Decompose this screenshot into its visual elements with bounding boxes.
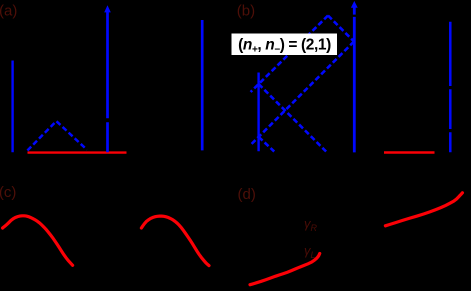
barrier line left (panel a)	[11, 61, 13, 153]
barrier line right (panel a)	[201, 20, 204, 150]
svg-text:(a): (a)	[0, 3, 17, 20]
delta arrow head (panel a)	[104, 5, 111, 12]
label box (n+,n-)=(2,1)	[232, 34, 338, 56]
red rising curve right (panel d)	[385, 193, 462, 226]
delta arrow shaft (panel a)	[106, 11, 109, 152]
red hump curve 2 (panel c)	[141, 216, 209, 266]
wavepacket baseline (panel a, red)	[28, 151, 127, 153]
svg-text:(b): (b)	[237, 2, 255, 19]
trajectory segment left barrier down-right short (panel b)	[259, 137, 275, 152]
trajectory segment apex to left barrier (panel b)	[251, 16, 328, 93]
dashed barrier line right (panel b)	[449, 22, 452, 152]
trajectory segment left barrier down-right long (panel b)	[259, 84, 327, 152]
barrier line left (panel b)	[257, 73, 259, 152]
svg-text:(c): (c)	[0, 184, 16, 201]
dashed triangle wavepacket (panel a)	[27, 121, 87, 150]
red hump curve 1 (panel c)	[3, 216, 73, 265]
svg-text:(d): (d)	[238, 186, 256, 203]
delta arrow shaft (panel b)	[353, 7, 356, 153]
trajectory segment apex to right barrier (panel b)	[328, 16, 354, 42]
red rising curve left (panel d)	[250, 254, 320, 285]
trajectory segment right barrier to left barrier (panel b)	[251, 42, 354, 145]
wavepacket baseline (panel b, red)	[384, 151, 435, 154]
delta arrow head (panel b)	[351, 1, 358, 8]
